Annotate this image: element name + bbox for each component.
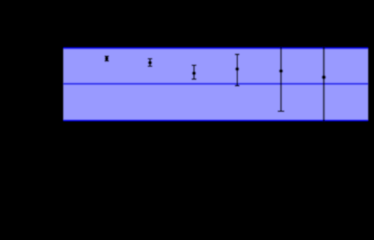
data point 6 bbox=[322, 24, 326, 134]
data point 1 bbox=[105, 56, 109, 61]
band centre line bbox=[63, 83, 368, 85]
band top edge bbox=[63, 47, 368, 49]
band bottom edge bbox=[63, 119, 368, 121]
data point 4 bbox=[235, 54, 240, 85]
data point 3 bbox=[192, 65, 197, 79]
uncertainty band bbox=[63, 48, 368, 120]
data point 2 bbox=[148, 59, 152, 66]
data point 5 bbox=[278, 28, 284, 111]
